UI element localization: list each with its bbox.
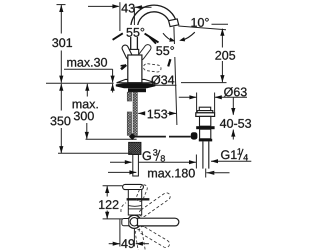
dim 49 ext right (133, 229, 135, 247)
label Ø63 (224, 87, 247, 96)
lever knob black (121, 65, 126, 69)
faucet neck (130, 49, 139, 55)
label G1 1/4 (221, 150, 237, 159)
dim 40-53 vertical (232, 97, 234, 115)
mounting washer band (116, 83, 156, 88)
arrow 301 top (59, 5, 63, 12)
ball joint (191, 132, 198, 139)
dim 49 line left (109, 243, 120, 245)
dim 10 deg tick (212, 23, 229, 25)
G3/8 threaded nipple (129, 142, 141, 154)
dim max.300 (86, 84, 137, 140)
dim 122 line (106, 186, 108, 219)
drain ext line left (196, 93, 198, 113)
dim Ø63 left arrow (179, 96, 197, 98)
arrow 350 bottom (59, 146, 63, 153)
arrow 43 right (135, 5, 142, 9)
hose connection rod (132, 136, 166, 138)
leader 10 deg slanted (178, 26, 226, 30)
plan body (128, 190, 141, 216)
arrow 43 left (112, 4, 119, 8)
deck line left top (46, 82, 114, 84)
plan lever cap bar (127, 198, 150, 200)
angle stroke 55a left (113, 33, 123, 40)
ext line spout tip vertical (174, 27, 177, 125)
dim max180 line right of tube (139, 161, 196, 163)
drain ext line right (214, 93, 216, 113)
dim 205 vertical (221, 29, 223, 83)
plan spout T-cap (123, 184, 144, 189)
plan dashed swing arc (121, 203, 126, 212)
dim 350 bottom line (58, 152, 132, 154)
label 49 (121, 239, 134, 248)
rod end diamond (129, 133, 136, 140)
spout gooseneck outer arc (131, 5, 176, 49)
plan solid lever (138, 218, 179, 226)
dim 153 (138, 112, 144, 114)
angle stroke 55b upper (150, 37, 157, 44)
tailpipe (203, 141, 209, 168)
label 40-53 (220, 119, 251, 128)
plan dashed lever steep-up (135, 184, 148, 203)
label max.300 (73, 102, 98, 109)
dim 122 ext top (103, 185, 123, 187)
dim Ø63 underline (215, 96, 247, 98)
dim 122 ext bottom (103, 218, 128, 220)
lever solid (121, 44, 133, 60)
swivel curved arrow (163, 33, 173, 41)
supply tube (133, 155, 139, 177)
dim max.30 (64, 69, 113, 92)
drain body (200, 129, 211, 139)
drain bottom band (199, 139, 212, 142)
supply hose right (133, 92, 137, 135)
drain flange (196, 113, 215, 117)
label Ø34 (151, 75, 174, 84)
label max.30 (67, 58, 107, 67)
escutcheon cone (117, 79, 156, 82)
plan body internal lines (128, 205, 141, 208)
angle stroke 55a right (145, 34, 159, 43)
label 10deg (192, 18, 209, 27)
dim 43 right tail (134, 6, 151, 8)
drain neck (200, 116, 211, 126)
label 350 (51, 117, 71, 126)
dim 49 line right (136, 243, 149, 245)
dim max180 left arrow (108, 171, 136, 173)
tick rod vertical (195, 155, 197, 169)
arrow 301 bottom (59, 76, 63, 83)
spout aerator cap (169, 19, 179, 27)
dim G3/8 left arrow (110, 161, 132, 163)
dim 43 lines group (88, 2, 152, 31)
label 55deg first (125, 25, 146, 37)
label max.180 (148, 169, 195, 178)
plan dashed lever up40 (138, 191, 172, 218)
label 205 (215, 51, 235, 60)
dim G1 1/4 underline (211, 160, 251, 162)
plan escutcheon circle (128, 215, 141, 228)
dim max180 right arrow (206, 171, 214, 175)
label 43 (122, 4, 135, 13)
dim G3/8 label (143, 151, 151, 160)
faucet body (128, 55, 142, 83)
supply hose left (127, 92, 131, 101)
plan dashed lever steep-down (135, 229, 146, 250)
ext line 43 left (119, 2, 121, 31)
label 122 (99, 200, 118, 209)
dim 301-350 vertical line (57, 5, 66, 154)
label 55deg second (155, 44, 176, 57)
lever position up-right solid (137, 43, 153, 61)
plan left nub (122, 219, 129, 226)
label 153 (148, 110, 167, 119)
drain plug cap (199, 107, 210, 110)
dim 49 ext left (119, 219, 121, 247)
mounting nut (128, 88, 146, 92)
plan body circle (130, 218, 138, 226)
angle stroke 55b lower (168, 59, 170, 66)
drain locknut (196, 126, 214, 129)
plan dashed lever down40 (138, 225, 171, 249)
arrow 350 top (59, 84, 63, 91)
ext line 43 right (133, 7, 135, 26)
lever dashed position right (143, 63, 161, 72)
label 301 (52, 38, 72, 47)
spout gooseneck inner arc (137, 12, 168, 49)
dim Ø34 underline (152, 84, 176, 86)
dim 43 line (88, 5, 119, 7)
deck line right (181, 82, 227, 84)
tick tailpipe centerline (205, 169, 207, 178)
